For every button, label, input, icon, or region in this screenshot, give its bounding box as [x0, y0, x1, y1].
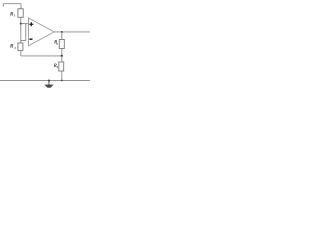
resistor R2 [18, 43, 23, 51]
node output junction [61, 31, 63, 33]
node A junction [20, 23, 22, 25]
svg-text:4: 4 [56, 65, 59, 69]
wire left vertical of tall loop [20, 23, 22, 40]
plus input symbol [29, 22, 33, 26]
wire bottom of tall loop [21, 40, 26, 42]
wire ground rail [0, 80, 90, 82]
wire R1 top lead [20, 4, 22, 9]
wire R4 bottom lead [61, 71, 63, 81]
node rail junction [61, 80, 63, 82]
svg-text:2: 2 [13, 46, 16, 50]
svg-text:3: 3 [55, 42, 58, 46]
ground [48, 81, 50, 86]
wire output [54, 31, 90, 33]
input terminal tick [2, 4, 4, 7]
wire top input [3, 3, 21, 5]
resistor R4 [59, 62, 64, 71]
wire R2 top lead [20, 41, 22, 44]
wire R1 bottom lead [20, 17, 22, 23]
wire R4 top lead [61, 56, 63, 62]
wire right vertical of tall loop [25, 23, 27, 40]
svg-text:R: R [9, 44, 14, 50]
wire feedback horizontal [21, 55, 62, 57]
node ground junction [48, 79, 50, 81]
wire R3 top lead [61, 32, 63, 40]
svg-text:1: 1 [14, 14, 16, 18]
node feedback junction [61, 55, 63, 57]
wire R3 bottom lead [61, 49, 63, 56]
op-amp U1 [29, 18, 55, 46]
wire R2 bottom lead [20, 51, 22, 56]
resistor R3 [59, 40, 64, 49]
wire noninverting input [21, 23, 29, 25]
resistor R1 [18, 9, 23, 17]
minus input symbol [29, 38, 32, 40]
